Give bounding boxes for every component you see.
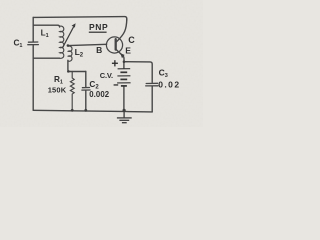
svg-text:PNP: PNP [89,22,108,32]
transistor Q1 PNP circle [106,37,122,53]
wire top rail [33,17,127,20]
wire L2 bottom [68,60,70,71]
PNP underline [89,32,107,33]
battery bottom stub [123,86,125,110]
wire collector lead [117,19,127,42]
svg-text:0.002: 0.002 [89,90,110,99]
label plus [112,63,118,64]
wire base lead [68,44,106,45]
resistor R1 [70,72,74,111]
junction node base/L2 top [67,44,70,47]
junction node C2/bottom rail [84,109,87,112]
ground stub [123,110,125,117]
svg-text:C: C [128,35,135,45]
capacitor C3 [146,83,158,86]
labels [14,22,181,99]
capacitor C1 [28,42,39,45]
wire bottom rail [33,110,152,112]
label minus [114,84,119,85]
transistor base bar [115,39,117,49]
junction node R1/bottom rail [71,109,74,112]
battery B1 (C.V.) plates [117,69,131,86]
junction node L2 bottom corner [67,70,69,72]
junction node emitter/battery/C3 [123,60,126,63]
junction node battery/bottom rail [123,109,126,112]
wire emitter node horizontal [124,62,152,83]
battery top stub [123,62,125,69]
paper background [0,0,203,127]
wire left vertical [32,17,34,110]
wire L1 bottom stub [33,57,59,59]
inductor L2 [68,46,72,61]
svg-text:B: B [96,45,102,55]
svg-text:150K: 150K [48,85,67,94]
svg-text:E: E [125,46,131,56]
inductor L1 [60,26,64,58]
ground symbol [117,118,132,123]
svg-text:C.V.: C.V. [100,71,113,80]
tuning arrow through L1 [62,23,75,48]
wire L1 top stub [33,25,59,27]
capacitor C2 [85,72,87,87]
wire connector to R1 C2 [69,71,86,73]
emitter arrowhead (PNP) [120,53,124,58]
wire emitter lead [116,49,124,61]
svg-text:0.02: 0.02 [158,79,180,89]
